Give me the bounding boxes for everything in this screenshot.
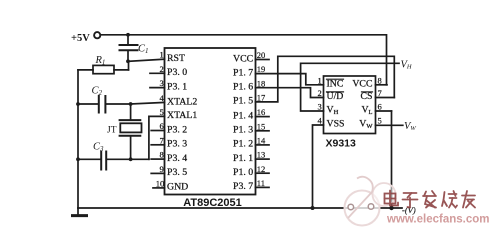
svg-text:14: 14 — [257, 136, 266, 146]
U1 pin stubs right (p20,p16,p15,p14,p13,p12,p11) — [256, 60, 270, 188]
capacitor C1 — [120, 35, 149, 61]
svg-text:P1. 5: P1. 5 — [233, 96, 253, 107]
svg-text:6: 6 — [378, 102, 382, 112]
svg-text:CS: CS — [361, 91, 373, 102]
U1 left pin labels — [167, 53, 197, 193]
IC U2 X9313 body — [324, 76, 376, 134]
ground rail — [78, 207, 402, 209]
svg-text:VCC: VCC — [233, 53, 253, 64]
svg-text:P3. 7: P3. 7 — [233, 181, 253, 192]
svg-text:U/D: U/D — [327, 91, 344, 102]
svg-text:P1. 1: P1. 1 — [233, 153, 253, 164]
svg-text:INC: INC — [327, 78, 344, 89]
wire P1.7 (pin19) to X9313 INC (pin1) — [256, 74, 324, 85]
svg-text:VW: VW — [359, 119, 373, 130]
node C1 top / rail junction — [126, 33, 130, 37]
node XTAL2 junction — [129, 102, 133, 106]
svg-text:3: 3 — [318, 102, 322, 112]
wire XTAL1 node to U1 pin 5 — [149, 116, 165, 159]
svg-text:2: 2 — [160, 64, 164, 74]
svg-text:4: 4 — [318, 116, 323, 126]
svg-text:VSS: VSS — [327, 119, 345, 130]
svg-text:P1. 3: P1. 3 — [233, 125, 253, 136]
capacitor C2 — [78, 86, 131, 113]
IC U1 AT89C2051 body — [165, 48, 256, 195]
svg-text:17: 17 — [257, 93, 266, 103]
svg-text:P1. 4: P1. 4 — [233, 110, 253, 121]
svg-text:C2: C2 — [92, 86, 103, 98]
svg-text:VCC: VCC — [352, 78, 372, 89]
+5V supply terminal — [71, 32, 100, 44]
svg-text:P1. 0: P1. 0 — [233, 167, 253, 178]
svg-text:P3. 2: P3. 2 — [167, 124, 187, 135]
U1 pin stubs left (p2,p3,p6,p7,p8,p9,p10) — [150, 73, 165, 188]
svg-text:P3. 4: P3. 4 — [167, 153, 187, 164]
node C3 / bus junction — [76, 157, 80, 161]
svg-text:R1: R1 — [95, 55, 106, 67]
svg-text:P3. 1: P3. 1 — [167, 81, 187, 92]
svg-text:P3. 3: P3. 3 — [167, 139, 187, 150]
svg-text:P1. 7: P1. 7 — [233, 67, 253, 78]
wire +5V rail to X9313 VCC pin 8 — [101, 35, 387, 85]
svg-text:RST: RST — [167, 53, 185, 64]
svg-text:C3: C3 — [93, 142, 104, 154]
ground symbol — [73, 208, 87, 216]
svg-text:18: 18 — [257, 78, 266, 88]
svg-text:XTAL1: XTAL1 — [167, 110, 197, 121]
svg-text:8: 8 — [160, 150, 164, 160]
svg-text:VH: VH — [401, 59, 412, 70]
wire P1.6 (pin18) to X9313 U/D (pin2) — [256, 88, 324, 98]
svg-text:VH: VH — [327, 105, 339, 116]
wire ground bus (left vertical) — [77, 70, 79, 208]
svg-text:P1. 2: P1. 2 — [233, 139, 253, 150]
svg-text:16: 16 — [257, 107, 266, 117]
svg-text:15: 15 — [257, 121, 266, 131]
U1 pin numbers left 1-10 — [156, 50, 165, 189]
U2 overlines for INC and U/D — [327, 79, 344, 92]
node XTAL1 junction — [129, 157, 133, 161]
watermark logo — [345, 177, 396, 226]
node RST (C1/R1/pin1 junction) — [126, 59, 130, 63]
svg-text:P3. 5: P3. 5 — [167, 167, 187, 178]
svg-text:P3. 0: P3. 0 — [167, 67, 187, 78]
svg-text:5: 5 — [160, 107, 164, 117]
wire VL (pin6) to ground rail — [391, 111, 393, 208]
svg-text:4: 4 — [160, 93, 165, 103]
U2 pin stubs (pin8 VCC, pin7 CS, pin6 VL, pin5 VW) — [376, 85, 403, 126]
svg-text:1: 1 — [160, 50, 164, 60]
crystal JT — [107, 104, 142, 159]
svg-text:JT: JT — [107, 126, 117, 136]
U2 overline for CS — [362, 91, 373, 93]
svg-text:GND: GND — [167, 182, 188, 193]
svg-text:8: 8 — [378, 75, 382, 85]
svg-text:www.elecfans.com: www.elecfans.com — [386, 213, 489, 225]
U2 left pin labels (INC, U/D, VH, VSS) — [327, 78, 345, 129]
svg-text:XTAL2: XTAL2 — [167, 96, 197, 107]
svg-text:5: 5 — [378, 116, 382, 126]
svg-text:12: 12 — [257, 164, 266, 174]
svg-text:6: 6 — [160, 121, 164, 131]
resistor R1 — [78, 55, 129, 74]
svg-text:13: 13 — [257, 150, 266, 160]
wire RST node to U1 pin 1 — [128, 59, 165, 61]
node C2 / bus junction — [76, 102, 80, 106]
svg-text:9: 9 — [160, 164, 164, 174]
watermark text brand glyphs — [385, 191, 476, 208]
U2 right pin labels (VCC, CS, VL, VW) — [352, 78, 373, 129]
U1 right pin labels — [233, 53, 253, 192]
U2 pin numbers — [318, 75, 382, 125]
svg-text:11: 11 — [257, 178, 265, 188]
svg-text:3: 3 — [160, 78, 164, 88]
svg-text:X9313: X9313 — [326, 138, 357, 150]
wire P1.5 (pin17) to X9313 CS (pin7) — [256, 56, 395, 102]
svg-text:19: 19 — [257, 64, 266, 74]
wire XTAL2 node to U1 pin 4 — [131, 102, 165, 104]
svg-text:AT89C2051: AT89C2051 — [183, 197, 242, 209]
U1 pin numbers right 20-11 — [257, 50, 266, 188]
svg-text:7: 7 — [378, 88, 382, 98]
svg-text:VW: VW — [404, 121, 416, 132]
node VSS / rail junction — [311, 206, 315, 210]
capacitor C3 — [78, 142, 149, 170]
svg-text:C1: C1 — [138, 44, 149, 56]
svg-text:2: 2 — [318, 88, 322, 98]
svg-text:7: 7 — [160, 135, 164, 145]
svg-text:1: 1 — [318, 75, 322, 85]
wire VSS (pin4) to ground rail — [313, 125, 324, 208]
svg-text:10: 10 — [156, 178, 165, 188]
svg-text:20: 20 — [257, 50, 266, 60]
svg-text:VL: VL — [361, 105, 372, 116]
svg-text:+5V: +5V — [71, 33, 90, 44]
wire VH net: X9313 pin3 to VH terminal — [301, 63, 399, 111]
node VL / rail junction — [389, 206, 393, 210]
svg-text:P1. 6: P1. 6 — [233, 82, 253, 93]
